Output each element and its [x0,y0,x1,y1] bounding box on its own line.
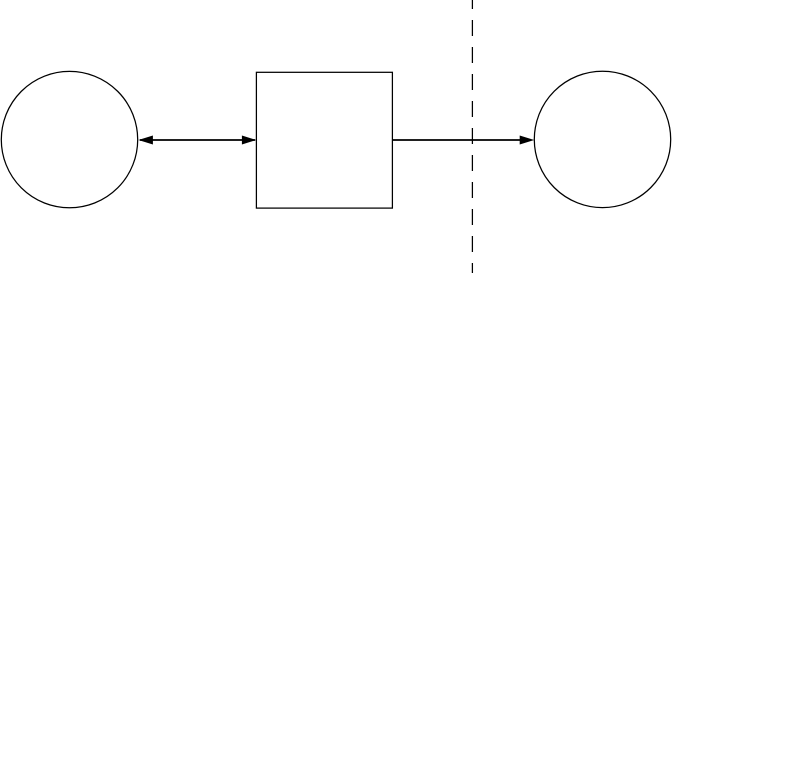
node left circle [1,71,137,207]
wire double arrow line [140,139,255,141]
boundary dashed line [471,0,473,273]
process box [256,72,392,208]
node right circle [534,71,670,207]
arrowhead into right circle [520,136,535,145]
wire single arrow line [392,139,525,141]
arrowhead right into box [242,136,257,145]
arrowhead left [138,136,153,145]
